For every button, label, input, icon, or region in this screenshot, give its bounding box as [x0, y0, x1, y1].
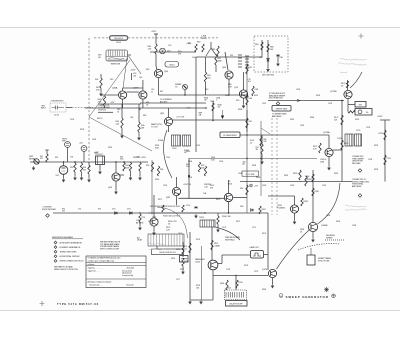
wire base Q45A — [100, 94, 119, 96]
svg-text:A TRIGGER GENERATOR: A TRIGGER GENERATOR — [60, 241, 83, 244]
value label — [238, 109, 242, 111]
wire — [98, 103, 141, 105]
wire — [74, 162, 76, 163]
value label — [254, 95, 258, 97]
label lockout — [95, 152, 104, 156]
page bottom edge line — [0, 310, 400, 312]
label R120 — [176, 249, 180, 251]
value label — [196, 145, 200, 147]
wire — [122, 88, 124, 91]
wire — [123, 161, 125, 164]
label R51 — [40, 156, 44, 160]
label note free run — [269, 93, 286, 100]
svg-text:R170: R170 — [216, 199, 220, 201]
wire Y junction — [206, 48, 216, 56]
node — [246, 134, 247, 135]
svg-text:R187: R187 — [254, 95, 258, 97]
ground — [138, 176, 141, 180]
svg-text:PA/DELAY: PA/DELAY — [195, 258, 205, 261]
label C58 — [136, 157, 139, 159]
label Q85 — [160, 113, 165, 115]
label +125V — [186, 43, 192, 45]
node — [115, 161, 116, 162]
dashed wire — [325, 239, 345, 241]
svg-text:Q175A: Q175A — [323, 131, 330, 134]
label V52 — [56, 175, 60, 177]
label connected note 1 — [352, 156, 365, 165]
label reference item — [60, 255, 81, 258]
label reference diagrams title — [52, 236, 74, 239]
node — [235, 275, 236, 276]
label R176 — [344, 143, 348, 145]
value label — [216, 199, 220, 201]
label Q50 — [164, 71, 169, 73]
svg-text:R120: R120 — [176, 249, 180, 251]
svg-text:R119: R119 — [239, 282, 243, 284]
svg-text:+2 TO CRT: +2 TO CRT — [176, 117, 185, 119]
node — [184, 94, 185, 95]
svg-text:TIMING SW: TIMING SW — [111, 64, 121, 66]
wire — [235, 300, 237, 301]
wire — [205, 57, 207, 72]
svg-text:C195: C195 — [70, 119, 74, 121]
wire — [267, 40, 269, 68]
node — [139, 212, 140, 213]
label R97 — [201, 165, 205, 169]
svg-text:R179: R179 — [387, 158, 391, 160]
value label — [210, 101, 214, 103]
value label — [244, 265, 248, 267]
label Q53 — [108, 187, 113, 189]
node — [246, 119, 247, 120]
value label — [117, 109, 120, 113]
svg-text:C4 470: C4 470 — [54, 115, 59, 117]
wire — [88, 174, 90, 178]
label R80 — [270, 47, 274, 51]
ground — [62, 178, 65, 182]
svg-text:B SWEEP GENERATOR: B SWEEP GENERATOR — [60, 246, 81, 249]
value label — [155, 179, 159, 181]
label row3 — [222, 216, 230, 218]
reference diamond — [358, 169, 362, 173]
label R30 — [98, 55, 101, 59]
wire — [158, 78, 160, 95]
value label — [316, 95, 320, 97]
wire — [155, 41, 157, 44]
resistor R113 — [211, 240, 213, 250]
resistor R180 — [299, 170, 301, 180]
svg-text:"precision": "precision" — [340, 72, 348, 74]
resistor R65 — [217, 46, 219, 56]
value label — [130, 117, 133, 119]
resistor R59 — [139, 163, 141, 172]
capacitor C97 — [194, 207, 197, 208]
label B52 — [62, 139, 68, 143]
label C60 — [192, 57, 195, 59]
svg-text:1-125V: 1-125V — [337, 138, 343, 140]
label R69 — [255, 89, 258, 91]
connector J1 — [34, 159, 39, 164]
wire — [123, 87, 143, 89]
label to crt — [176, 117, 185, 119]
wire mid bus — [189, 158, 318, 160]
value label — [222, 227, 226, 229]
connector box J173 — [355, 102, 366, 108]
svg-text:C180: C180 — [290, 185, 294, 187]
svg-text:C70: C70 — [78, 209, 81, 211]
svg-text:C177: C177 — [176, 279, 180, 281]
label Q45A — [112, 87, 118, 90]
svg-text:+ Auto-Stab: + Auto-Stab — [126, 266, 134, 269]
label C4 — [54, 115, 59, 117]
resistor R62 — [215, 55, 217, 65]
wire — [212, 280, 214, 300]
resistor R69 — [252, 86, 254, 96]
wire — [348, 104, 355, 106]
wire rail — [211, 227, 213, 258]
svg-text:SWEEP GENERATOR: SWEEP GENERATOR — [286, 295, 329, 299]
svg-text:C194: C194 — [92, 139, 96, 141]
resistor R67 — [246, 64, 248, 74]
label R52 — [55, 157, 58, 159]
value label — [300, 229, 304, 233]
wire — [155, 60, 157, 66]
svg-text:R177: R177 — [180, 269, 184, 271]
label delaying sweep — [326, 234, 335, 239]
label R67 — [249, 67, 252, 69]
arrow — [297, 99, 300, 101]
wire — [221, 255, 223, 264]
label Q173B — [330, 91, 337, 93]
svg-text:R118: R118 — [220, 283, 224, 285]
label — [250, 140, 254, 144]
wire base link — [179, 197, 226, 199]
label C80 — [280, 57, 283, 59]
wire — [217, 213, 219, 216]
diode D80 — [267, 59, 270, 61]
svg-text:D96: D96 — [240, 206, 243, 208]
dashed boundary wire — [128, 37, 218, 39]
ground — [120, 134, 123, 138]
wire — [294, 213, 296, 220]
label sweep generator title — [286, 295, 329, 299]
pencil note right mid — [345, 205, 366, 211]
label Q184B — [321, 225, 328, 227]
svg-text:+GATE: +GATE — [214, 244, 221, 247]
value label — [238, 173, 242, 175]
ground — [194, 214, 197, 218]
label C176 — [356, 130, 360, 132]
label R118 — [220, 283, 224, 285]
label precision gate — [225, 236, 241, 241]
svg-text:R114: R114 — [171, 258, 175, 260]
label R114 — [171, 258, 175, 260]
label R113 — [214, 243, 221, 247]
value label — [368, 159, 372, 161]
resistor R176 — [341, 140, 343, 150]
svg-text:C60: C60 — [192, 57, 195, 59]
wire — [277, 55, 279, 62]
ground — [32, 166, 35, 170]
label Q180 — [277, 205, 285, 210]
label +300 — [242, 162, 246, 166]
svg-text:R106 D106 C107 R107: R106 D106 C107 R107 — [163, 216, 180, 218]
resistor R54 — [80, 163, 82, 172]
label C53 — [70, 157, 73, 159]
svg-text:.001: .001 — [248, 81, 251, 83]
svg-text:Q120: Q120 — [262, 269, 268, 271]
wire — [123, 58, 127, 88]
svg-text:R176: R176 — [344, 143, 348, 145]
pencil note center — [148, 243, 164, 250]
page top edge line — [0, 27, 400, 29]
svg-text:R49: R49 — [143, 115, 146, 117]
value label — [352, 225, 356, 227]
value label — [166, 227, 170, 231]
value label — [143, 115, 146, 117]
ground — [114, 190, 117, 194]
neon B54 — [81, 146, 87, 152]
svg-text:R192: R192 — [374, 145, 378, 147]
svg-text:TIMING SWITCHES: TIMING SWITCHES — [60, 252, 78, 254]
value label — [254, 271, 258, 273]
label connected note 2 — [352, 179, 370, 188]
value label — [180, 269, 184, 271]
wire — [235, 276, 237, 291]
label R179 — [387, 158, 391, 160]
svg-text:+ TRIGGER INPUT: + TRIGGER INPUT — [50, 101, 63, 103]
svg-text:K50: K50 — [94, 153, 97, 155]
dashed boundary wire — [94, 37, 109, 39]
label R70 — [236, 100, 239, 102]
node — [246, 158, 247, 159]
resistor R92 — [246, 185, 248, 195]
node — [74, 161, 75, 162]
resistor R95 — [151, 162, 153, 172]
resistor R66 — [261, 42, 263, 50]
label R53 — [70, 167, 73, 169]
label R46 — [146, 102, 149, 106]
wire — [218, 263, 222, 265]
wire collector link — [127, 91, 139, 93]
label R40 — [148, 46, 153, 50]
ground — [242, 104, 245, 108]
resistor R181 — [305, 176, 307, 186]
ground — [152, 231, 155, 235]
wire — [142, 99, 144, 108]
node — [63, 161, 64, 162]
resistor R120 — [182, 246, 184, 254]
ground — [311, 238, 314, 242]
label D72 — [112, 209, 115, 211]
svg-text:AMPLIFIER: AMPLIFIER — [272, 115, 282, 118]
value label — [334, 173, 338, 175]
svg-text:D51: D51 — [188, 43, 191, 45]
svg-text:R60: R60 — [197, 42, 200, 44]
svg-text:SW 30: SW 30 — [116, 42, 121, 44]
resistor R56 — [123, 163, 125, 172]
label R57 — [126, 165, 130, 169]
wire rail — [195, 57, 197, 152]
svg-text:C173: C173 — [178, 233, 182, 235]
resistor R64B — [212, 103, 214, 111]
wire — [138, 104, 140, 122]
svg-text:R185: R185 — [290, 119, 294, 121]
wire — [81, 162, 83, 163]
wire switch lead — [129, 56, 142, 74]
label R95 — [146, 165, 149, 167]
svg-text:R184: R184 — [336, 221, 340, 223]
wire — [228, 202, 230, 213]
adjust box R114 — [180, 256, 189, 263]
svg-text:R92: R92 — [240, 188, 243, 190]
label +225V — [151, 31, 157, 33]
label R63 — [228, 84, 232, 88]
wire — [205, 82, 207, 95]
svg-text:R168: R168 — [252, 165, 256, 167]
resistor R102 — [259, 206, 261, 214]
timing switch boundary pill — [109, 35, 128, 44]
wire — [140, 102, 206, 104]
transistor Q184B — [308, 222, 317, 231]
node — [228, 94, 229, 95]
value label — [256, 177, 260, 179]
svg-text:Q115: Q115 — [195, 262, 201, 264]
timing capacitor C160a — [172, 135, 181, 146]
wire long mid — [240, 181, 352, 183]
wire — [128, 54, 132, 56]
wire lockout bus — [30, 161, 148, 163]
value label — [158, 199, 162, 201]
svg-text:101-up adj: 101-up adj — [126, 284, 134, 286]
label R65 — [212, 49, 215, 51]
value label — [196, 239, 200, 241]
label C160 — [172, 148, 176, 150]
wire — [294, 196, 296, 205]
wire — [104, 106, 106, 108]
svg-text:R69: R69 — [255, 89, 258, 91]
trigger input dashed box — [50, 103, 66, 112]
resistor R112 — [189, 243, 191, 253]
resistor R98 — [204, 166, 206, 176]
value label — [97, 118, 102, 120]
label +trigger — [42, 207, 56, 211]
supply tick — [154, 33, 158, 35]
wire — [215, 65, 217, 72]
tunnel diode block TD110 — [200, 220, 215, 227]
node — [246, 94, 247, 95]
resistor R61 — [202, 44, 204, 52]
transistor Q85 — [164, 117, 172, 125]
svg-text:R96: R96 — [160, 169, 163, 171]
value label — [70, 119, 74, 121]
resistor R121 — [182, 258, 184, 266]
node — [228, 212, 229, 213]
label R70 — [62, 209, 66, 213]
value label — [310, 117, 314, 119]
ground — [293, 220, 296, 224]
wire — [243, 72, 245, 90]
svg-text:R93 C93 R94 TPA C97 R: R93 C93 R94 TPA C97 R104 D97 R105 — [150, 205, 180, 208]
label table row — [88, 257, 121, 260]
wire rail — [189, 232, 191, 300]
wire — [176, 196, 178, 205]
transistor Q175A — [325, 148, 333, 156]
wire — [347, 99, 349, 105]
value label — [188, 177, 192, 179]
svg-text:R190: R190 — [316, 95, 320, 97]
wire — [225, 52, 228, 70]
value label — [110, 79, 113, 81]
label R91 — [256, 147, 259, 151]
label Q175A — [323, 131, 330, 134]
value label — [155, 145, 160, 149]
wire — [268, 195, 295, 197]
wire — [228, 79, 230, 95]
reference diamond — [358, 194, 362, 198]
resistor R53 — [74, 163, 76, 172]
reference diamond trigger — [46, 214, 50, 218]
svg-text:C48: C48 — [130, 117, 133, 119]
svg-text:R176: R176 — [262, 233, 266, 235]
ground — [276, 62, 279, 66]
value label — [146, 69, 149, 71]
wire — [156, 66, 157, 70]
resistor R41 — [100, 78, 102, 88]
svg-text:R101: R101 — [228, 183, 232, 185]
label — [183, 184, 191, 186]
wire — [188, 159, 190, 199]
tube V52 — [59, 166, 68, 175]
svg-text:R171: R171 — [158, 199, 162, 201]
value label — [230, 55, 233, 57]
value label — [296, 89, 300, 91]
svg-text:TO CRT: TO CRT — [151, 126, 159, 128]
svg-text:R102: R102 — [262, 209, 266, 211]
wire bus — [150, 51, 196, 53]
resistor R178 — [384, 130, 386, 140]
svg-text:DECOUPLING: DECOUPLING — [262, 75, 275, 77]
svg-text:SWEEP: SWEEP — [326, 237, 333, 239]
label Q70 — [234, 87, 239, 89]
tunnel diode D55 — [182, 84, 187, 89]
svg-text:C169: C169 — [262, 185, 266, 187]
wire curve arc — [318, 183, 341, 224]
wire — [182, 266, 184, 270]
label R64 — [207, 75, 211, 79]
wire — [159, 94, 186, 96]
wire curve — [163, 130, 172, 178]
label +12V — [110, 102, 115, 104]
label table row — [88, 280, 112, 283]
label type 547 title — [57, 302, 99, 306]
label sweep trans — [318, 257, 332, 262]
ground — [260, 160, 263, 164]
label R102 — [262, 209, 266, 211]
label R181 — [308, 179, 312, 181]
ground arrow — [221, 110, 224, 119]
transistor Q64 — [225, 71, 233, 79]
svg-text:Trigger level . . . . . .: Trigger level . . . . . . — [88, 269, 101, 272]
label R175 — [334, 117, 338, 121]
resistor R60 — [195, 44, 197, 52]
dashed boundary wire — [88, 38, 90, 168]
svg-text:TUNING: TUNING — [277, 208, 285, 210]
ground — [129, 176, 132, 180]
label — [320, 159, 327, 163]
svg-text:C188: C188 — [210, 101, 214, 103]
wire — [121, 104, 123, 118]
